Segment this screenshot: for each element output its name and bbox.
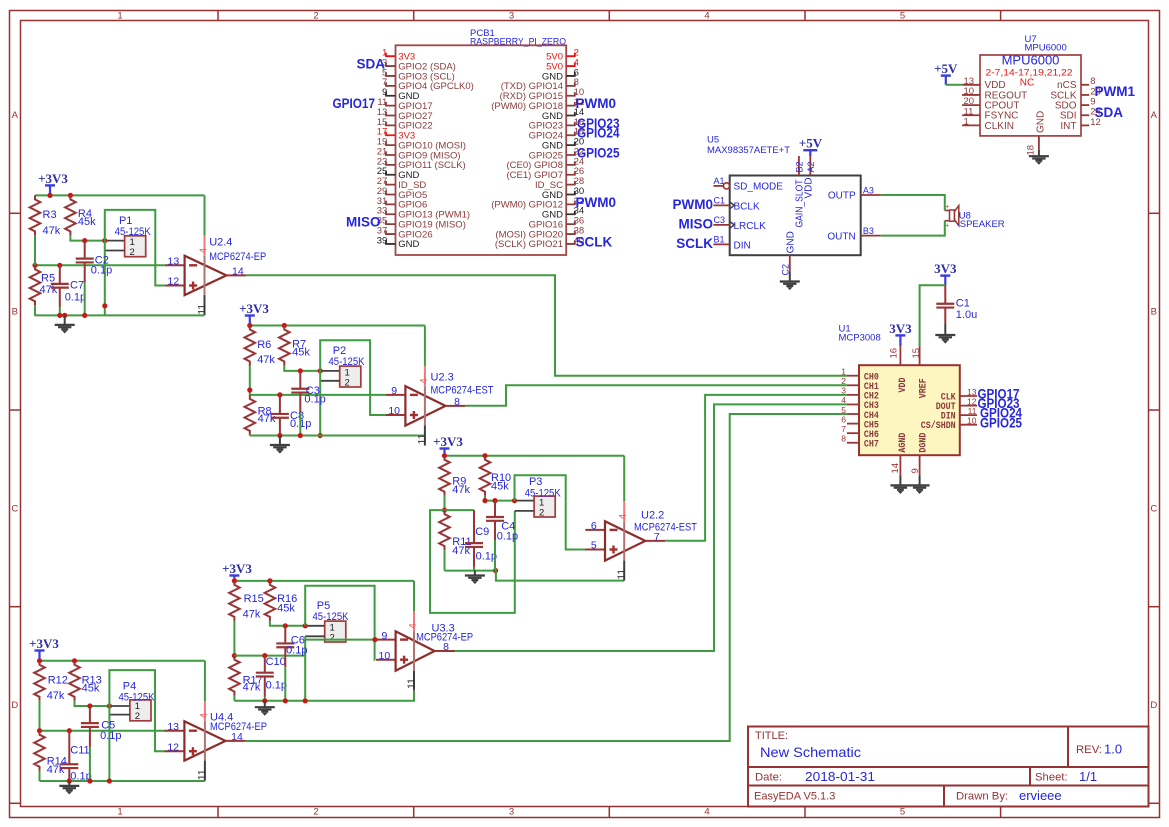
svg-text:4: 4 [407, 623, 419, 629]
svg-text:9: 9 [910, 468, 921, 473]
svg-text:+3V3: +3V3 [38, 171, 68, 186]
svg-text:R3: R3 [43, 209, 57, 221]
svg-text:2: 2 [330, 632, 335, 643]
svg-text:10: 10 [967, 416, 977, 426]
svg-text:16: 16 [888, 348, 899, 359]
svg-text:1: 1 [117, 807, 122, 818]
svg-text:2: 2 [129, 247, 134, 258]
svg-text:13: 13 [168, 256, 180, 268]
svg-text:A1: A1 [714, 176, 725, 186]
svg-text:New Schematic: New Schematic [760, 744, 861, 760]
svg-text:MCP6274-EP: MCP6274-EP [209, 251, 266, 263]
svg-text:4: 4 [704, 11, 709, 22]
svg-text:1.0: 1.0 [1104, 742, 1122, 757]
svg-text:B2: B2 [795, 161, 805, 172]
svg-text:45k: 45k [277, 603, 295, 615]
svg-text:B: B [12, 307, 18, 318]
svg-text:-SPEAKER: -SPEAKER [957, 219, 1005, 230]
svg-text:LRCLK: LRCLK [734, 221, 767, 232]
svg-text:GPIO25: GPIO25 [577, 145, 620, 160]
svg-text:SD_MODE: SD_MODE [734, 182, 784, 193]
svg-text:Drawn By:: Drawn By: [956, 791, 1008, 803]
svg-text:2: 2 [539, 507, 544, 518]
svg-text:U5: U5 [707, 135, 719, 146]
svg-text:11: 11 [196, 304, 208, 315]
svg-text:3V3: 3V3 [889, 321, 912, 336]
svg-text:+3V3: +3V3 [29, 636, 59, 651]
svg-text:14: 14 [232, 266, 244, 278]
svg-text:A3: A3 [863, 185, 874, 195]
svg-text:11: 11 [616, 569, 628, 580]
svg-text:A2: A2 [806, 161, 816, 172]
svg-text:0.1p: 0.1p [91, 265, 112, 277]
svg-text:8: 8 [454, 396, 460, 408]
svg-text:B: B [1151, 307, 1157, 318]
svg-text:0.1p: 0.1p [476, 551, 497, 563]
svg-text:14: 14 [890, 463, 901, 474]
svg-text:MCP6274-EP: MCP6274-EP [210, 721, 267, 733]
svg-text:47k: 47k [43, 225, 61, 237]
svg-text:47k: 47k [257, 354, 275, 366]
svg-text:0.1p: 0.1p [266, 680, 287, 692]
svg-text:18: 18 [1026, 145, 1037, 156]
svg-text:4: 4 [198, 248, 210, 254]
svg-text:OUTP: OUTP [828, 191, 856, 202]
svg-text:SDA: SDA [356, 56, 385, 71]
svg-text:45k: 45k [292, 346, 310, 358]
svg-text:0.1p: 0.1p [497, 531, 518, 543]
svg-text:4: 4 [198, 713, 210, 719]
svg-text:AGND: AGND [897, 433, 908, 453]
svg-text:+3V3: +3V3 [222, 561, 252, 576]
svg-text:Date:: Date: [755, 772, 782, 784]
svg-text:13: 13 [967, 387, 977, 397]
svg-text:3: 3 [509, 807, 514, 818]
svg-text:BCLK: BCLK [734, 202, 760, 213]
svg-text:MPU6000: MPU6000 [1002, 53, 1060, 68]
svg-text:VDD: VDD [803, 177, 814, 198]
svg-text:GND: GND [398, 239, 419, 250]
svg-text:B1: B1 [714, 235, 725, 245]
svg-text:D: D [1150, 700, 1157, 711]
svg-text:MAX98357AETE+T: MAX98357AETE+T [707, 145, 790, 156]
svg-text:47k: 47k [452, 484, 470, 496]
svg-text:OUTN: OUTN [827, 231, 855, 242]
svg-text:U2.3: U2.3 [431, 371, 454, 383]
svg-text:C: C [11, 504, 18, 515]
svg-text:U2.4: U2.4 [209, 237, 232, 249]
svg-text:R6: R6 [257, 339, 271, 351]
svg-text:PWM0: PWM0 [576, 96, 617, 111]
svg-text:U2.2: U2.2 [641, 510, 664, 522]
svg-text:9: 9 [391, 385, 397, 397]
svg-text:GPIO17: GPIO17 [333, 96, 376, 111]
svg-text:ervieee: ervieee [1019, 788, 1062, 803]
svg-text:6: 6 [841, 414, 846, 424]
svg-text:PWM1: PWM1 [1095, 84, 1136, 99]
svg-text:0.1p: 0.1p [304, 393, 325, 405]
svg-text:GPIO25: GPIO25 [980, 415, 1022, 430]
svg-text:2: 2 [313, 807, 318, 818]
svg-text:5: 5 [900, 807, 905, 818]
svg-text:SCLK: SCLK [576, 234, 613, 249]
svg-text:SCLK: SCLK [676, 236, 713, 251]
svg-text:MCP3008: MCP3008 [839, 332, 881, 343]
svg-text:15: 15 [911, 348, 922, 359]
svg-text:4: 4 [617, 514, 629, 520]
svg-text:11: 11 [196, 769, 208, 780]
svg-text:DGND: DGND [918, 433, 929, 453]
svg-text:47k: 47k [243, 682, 261, 694]
svg-text:+: + [945, 204, 949, 211]
svg-text:P2: P2 [333, 345, 346, 357]
svg-text:47k: 47k [243, 609, 261, 621]
svg-text:GND: GND [785, 231, 796, 253]
svg-text:11: 11 [416, 433, 428, 444]
svg-text:4: 4 [418, 378, 430, 384]
svg-text:SDA: SDA [1095, 105, 1124, 120]
svg-text:45-125K: 45-125K [119, 692, 156, 704]
svg-text:10: 10 [379, 650, 391, 662]
svg-text:MCP6274-EP: MCP6274-EP [416, 632, 473, 644]
svg-text:EasyEDA V5.1.3: EasyEDA V5.1.3 [754, 791, 835, 803]
svg-text:39: 39 [377, 235, 388, 246]
svg-text:TITLE:: TITLE: [755, 730, 788, 742]
svg-text:1: 1 [964, 116, 969, 127]
svg-text:5: 5 [900, 11, 905, 22]
svg-text:B3: B3 [863, 226, 874, 236]
svg-text:GND: GND [1036, 111, 1047, 133]
svg-text:6: 6 [591, 520, 597, 532]
svg-text:3: 3 [509, 11, 514, 22]
svg-text:11: 11 [405, 678, 417, 689]
svg-text:(SCLK) GPIO21: (SCLK) GPIO21 [495, 239, 563, 250]
svg-text:9: 9 [381, 630, 387, 642]
svg-text:NC: NC [1020, 77, 1034, 88]
svg-text:C9: C9 [475, 526, 489, 538]
svg-text:4: 4 [704, 807, 709, 818]
svg-text:1: 1 [117, 11, 122, 22]
svg-text:45-125K: 45-125K [313, 611, 350, 623]
svg-text:CLKIN: CLKIN [985, 121, 1014, 132]
svg-text:45k: 45k [491, 481, 509, 493]
svg-text:13: 13 [167, 721, 179, 733]
svg-text:C3: C3 [714, 215, 726, 225]
svg-text:45-125K: 45-125K [115, 226, 152, 238]
svg-text:R15: R15 [244, 593, 264, 605]
svg-text:+5V: +5V [799, 136, 823, 151]
svg-text:12: 12 [167, 741, 179, 753]
svg-text:45k: 45k [82, 683, 100, 695]
svg-text:0.1p: 0.1p [100, 730, 121, 742]
svg-text:3V3: 3V3 [934, 261, 957, 276]
svg-text:2: 2 [135, 711, 140, 722]
svg-text:C1: C1 [956, 297, 970, 309]
svg-text:45k: 45k [78, 216, 96, 228]
svg-text:C1: C1 [714, 196, 726, 206]
svg-text:11: 11 [968, 406, 977, 416]
svg-text:INT: INT [1060, 121, 1076, 132]
svg-text:1.0u: 1.0u [956, 309, 977, 321]
svg-text:+: + [945, 222, 949, 229]
svg-text:R5: R5 [41, 273, 55, 285]
svg-text:REV:: REV: [1076, 744, 1102, 756]
svg-text:MCP6274-EST: MCP6274-EST [431, 385, 494, 397]
svg-text:2: 2 [313, 11, 318, 22]
svg-text:0.1p: 0.1p [65, 291, 86, 303]
svg-text:47k: 47k [47, 764, 65, 776]
svg-text:MCP6274-EST: MCP6274-EST [634, 522, 697, 534]
svg-text:D: D [11, 700, 18, 711]
svg-text:C: C [1150, 504, 1157, 515]
svg-text:0.1p: 0.1p [286, 645, 307, 657]
svg-text:1/1: 1/1 [1079, 769, 1097, 784]
svg-text:45-125K: 45-125K [329, 356, 366, 368]
svg-text:MISO: MISO [678, 216, 713, 231]
svg-text:2018-01-31: 2018-01-31 [805, 769, 875, 784]
svg-text:Sheet:: Sheet: [1035, 772, 1068, 784]
svg-text:+3V3: +3V3 [433, 434, 463, 449]
svg-text:VDD: VDD [897, 377, 908, 392]
svg-text:C11: C11 [70, 744, 89, 756]
svg-text:8: 8 [841, 434, 846, 444]
svg-text:A: A [1151, 110, 1158, 121]
svg-text:PWM0: PWM0 [576, 195, 617, 210]
svg-text:CS/SHDN: CS/SHDN [921, 420, 956, 431]
svg-text:+3V3: +3V3 [239, 301, 269, 316]
svg-text:47k: 47k [47, 690, 65, 702]
svg-text:PWM0: PWM0 [673, 197, 714, 212]
svg-text:A: A [12, 110, 19, 121]
svg-text:10: 10 [388, 405, 400, 417]
svg-text:VREF: VREF [918, 378, 929, 398]
svg-text:5: 5 [591, 540, 597, 552]
svg-text:CH7: CH7 [864, 439, 879, 450]
svg-text:GPIO24: GPIO24 [577, 126, 620, 141]
svg-text:2: 2 [345, 377, 350, 388]
svg-text:C7: C7 [70, 279, 84, 291]
svg-text:DIN: DIN [734, 241, 751, 252]
svg-text:12: 12 [967, 396, 977, 406]
svg-text:7: 7 [841, 424, 846, 434]
svg-text:MISO: MISO [346, 215, 381, 230]
svg-text:12: 12 [168, 276, 180, 288]
svg-text:R12: R12 [48, 674, 68, 686]
svg-text:+5V: +5V [934, 61, 958, 76]
svg-text:45-125K: 45-125K [525, 487, 562, 499]
svg-text:47k: 47k [40, 284, 58, 296]
svg-text:C10: C10 [266, 656, 286, 668]
